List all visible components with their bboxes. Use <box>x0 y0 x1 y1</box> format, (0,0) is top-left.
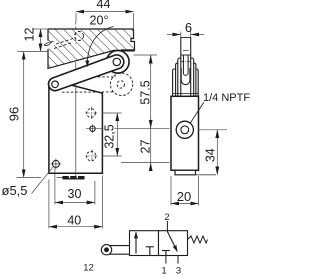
spring <box>188 236 208 243</box>
dimension 44 <box>76 12 134 28</box>
lever arm <box>48 55 123 91</box>
dimension 57.5 <box>86 55 170 171</box>
svg-text:44: 44 <box>97 0 111 11</box>
side view foot <box>175 170 216 175</box>
port 2 stub <box>166 221 168 231</box>
side view roller stem <box>181 37 191 96</box>
free lever position (dashed) <box>54 32 84 49</box>
port hole bottom (dashed) <box>85 149 98 162</box>
roller pin hole <box>113 58 120 65</box>
right box flow diagonal 2-3 <box>167 231 177 252</box>
dimension 20 <box>171 176 199 206</box>
svg-text:1: 1 <box>161 266 166 277</box>
left box blocked port T <box>146 247 154 256</box>
roller at lever tip <box>107 51 130 74</box>
dimension 96 <box>17 52 42 178</box>
svg-text:1/4 NPTF: 1/4 NPTF <box>203 92 250 104</box>
bottom mounting feet <box>57 176 85 180</box>
side view body <box>171 96 199 170</box>
svg-text:30: 30 <box>68 187 82 201</box>
side view fork plates <box>173 55 199 96</box>
dimension Ø5.5 leader <box>32 167 54 194</box>
roller lever actuator <box>101 245 129 255</box>
side view roller pin centerline <box>182 61 191 63</box>
port 3 stub <box>177 256 179 264</box>
mounting hole Ø5.5 <box>51 159 62 170</box>
dimension 34 <box>198 130 227 175</box>
cam plate (hatched machine part) <box>48 29 135 68</box>
svg-text:57.5: 57.5 <box>139 80 153 104</box>
svg-text:3: 3 <box>176 266 181 277</box>
plate left edge gap with hook mark <box>44 40 56 49</box>
lever pivot hole <box>52 81 59 88</box>
svg-text:ø5,5: ø5,5 <box>2 183 28 198</box>
svg-text:6: 6 <box>185 20 192 35</box>
valve box left <box>130 231 159 256</box>
dimension 6 <box>167 32 204 38</box>
dimension 40 <box>49 176 103 229</box>
svg-text:12: 12 <box>22 28 36 42</box>
svg-text:27: 27 <box>138 140 152 154</box>
port hole middle (1/4 NPTF, solid) <box>90 124 95 133</box>
dimension 32.5 <box>102 113 122 156</box>
pressed lever position (dashed, overtravel) <box>62 73 133 95</box>
valve body outline <box>49 81 103 174</box>
svg-text:40: 40 <box>67 213 81 227</box>
plunger centerline <box>75 21 77 178</box>
port 1 stub <box>165 256 167 264</box>
dimension 30 <box>55 169 95 205</box>
svg-text:20: 20 <box>177 189 191 204</box>
1/4 NPTF port circle <box>176 121 193 138</box>
valve box right <box>159 231 188 256</box>
1/4 NPTF leader and label <box>190 102 204 124</box>
svg-text:12: 12 <box>83 263 94 274</box>
contact plane line <box>18 51 48 53</box>
svg-text:32,5: 32,5 <box>102 124 116 148</box>
svg-text:96: 96 <box>7 107 22 121</box>
angle 20 degrees <box>87 27 113 67</box>
svg-text:34: 34 <box>203 148 217 162</box>
svg-text:20°: 20° <box>90 13 109 27</box>
port hole top (dashed) <box>85 107 97 119</box>
svg-text:2: 2 <box>164 212 169 223</box>
left box flow arrow <box>135 232 137 253</box>
dimension 12 <box>32 29 47 52</box>
dimension 27 <box>121 162 170 164</box>
right box blocked port T <box>162 251 170 256</box>
